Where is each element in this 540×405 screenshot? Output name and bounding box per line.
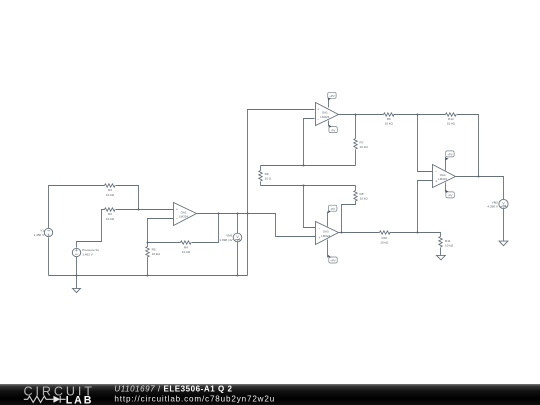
wire R5 top lead [147, 243, 149, 247]
junction R7 on OA1 output [355, 114, 357, 116]
svg-text:+: + [435, 180, 437, 184]
wire R10 right to R11 top [390, 233, 441, 237]
wire VM1 top [237, 214, 239, 234]
resistor R12 [446, 113, 457, 116]
junction R8 on OA3 output [341, 232, 343, 234]
svg-text:10 kΩ: 10 kΩ [447, 122, 456, 126]
svg-text:−: − [176, 217, 178, 221]
junction R5 rail [147, 275, 149, 277]
junction VM1 on OA2 output [237, 213, 239, 215]
svg-text:VM1: VM1 [226, 233, 233, 237]
wire OA1 output to R9 [339, 114, 384, 116]
svg-text:10 kΩ: 10 kΩ [360, 145, 369, 149]
wire R2 right lead to OA2 noninverting input [116, 209, 174, 211]
svg-text:OA1: OA1 [322, 111, 328, 115]
ground under R11 [437, 255, 446, 260]
wire OA3 inverting input from node B [304, 186, 316, 228]
wire V1 top to R3 left [49, 186, 105, 229]
wire R5 bottom lead [147, 257, 149, 276]
svg-text:10 kΩ: 10 kΩ [106, 193, 115, 197]
junction R3 R2 input node [138, 209, 140, 211]
junction node A [303, 165, 305, 167]
svg-text:R10: R10 [381, 236, 387, 240]
label R6 [265, 172, 272, 181]
svg-text:-PV: -PV [330, 207, 335, 211]
svg-text:1.450 V: 1.450 V [34, 233, 46, 237]
svg-text:R11: R11 [445, 239, 451, 243]
power flag -PV below OA1 [329, 121, 338, 133]
wire R12 right down to output [457, 115, 479, 177]
label R7 [360, 140, 369, 149]
wire V1 bottom to rail [48, 238, 50, 276]
svg-text:LM324: LM324 [179, 215, 188, 219]
wire VM2 bottom to ground [503, 209, 505, 241]
power flag -PV below OA4 [445, 183, 455, 198]
svg-text:OA3: OA3 [323, 230, 329, 234]
wire R7 bottom lead [355, 150, 357, 166]
resistor R6 [259, 171, 262, 182]
svg-text:+PV: +PV [329, 94, 334, 98]
junction R9 R12 node [417, 114, 419, 116]
power flag -PV above OA3 [328, 205, 337, 226]
voltage source V1 [34, 228, 53, 237]
op-amp OA4 [433, 165, 456, 188]
label R8 [360, 192, 369, 201]
resistor R9 [384, 113, 395, 116]
wire OA2 output to OA3 noninverting input [197, 214, 316, 237]
wire R6 top lead [260, 166, 262, 171]
svg-text:V1: V1 [40, 229, 44, 233]
svg-text:+: + [317, 108, 319, 112]
svg-text:R12: R12 [448, 117, 454, 121]
svg-text:LM324: LM324 [320, 115, 329, 119]
svg-text:LAB: LAB [66, 394, 93, 405]
wire R8 top lead [355, 186, 357, 191]
junction rail ground [76, 275, 78, 277]
voltmeter VM1 [219, 233, 241, 242]
svg-text:10 kΩ: 10 kΩ [106, 217, 115, 221]
label R12 [447, 117, 456, 126]
svg-text:−: − [435, 170, 437, 174]
svg-text:U1101697 / ELE3506-A1 Q 2: U1101697 / ELE3506-A1 Q 2 [114, 384, 232, 393]
svg-text:R6: R6 [265, 172, 269, 176]
svg-text:VM2: VM2 [492, 200, 499, 204]
svg-text:1.462 V: 1.462 V [82, 253, 94, 257]
svg-text:+: + [176, 207, 178, 211]
svg-text:R3: R3 [108, 188, 112, 192]
wire R3 right to node at R2 [116, 186, 139, 210]
svg-text:-PV: -PV [448, 194, 453, 198]
wire node B horizontal [261, 185, 356, 187]
wire OA4 noninverting input down to divider node [418, 181, 433, 233]
voltage source Pressure Sx [72, 248, 99, 257]
wire OA4 inverting input from R9 R12 node [418, 115, 433, 172]
junction R12 on OA4 output [478, 176, 480, 178]
svg-text:R5: R5 [152, 247, 156, 251]
svg-text:4.390 V: 4.390 V [487, 205, 499, 209]
wire OA4 output to VM2 [456, 177, 504, 200]
junction R4 R5 feedback node [147, 242, 149, 244]
wire Pressure source bottom [76, 257, 78, 276]
junction VM1 rail [237, 275, 239, 277]
power flag +PV below OA3 [328, 240, 338, 264]
svg-text:10 kΩ: 10 kΩ [182, 250, 191, 254]
wire long vertical to OA1 noninverting input [248, 110, 315, 276]
op-amp OA3 [316, 222, 339, 245]
wire R4 right lead up to output wire [192, 214, 219, 243]
voltmeter VM2 [487, 199, 508, 208]
svg-text:10 kΩ: 10 kΩ [445, 243, 454, 247]
svg-text:10 kΩ: 10 kΩ [152, 252, 161, 256]
label R10 [380, 236, 389, 245]
svg-text:R2: R2 [108, 212, 112, 216]
wire R7 top lead [355, 115, 357, 139]
junction node B [303, 185, 305, 187]
resistor R3 [105, 184, 116, 187]
resistor R11 [439, 237, 442, 248]
power flag +PV above OA1 [328, 92, 337, 107]
junction R4 on OA2 output [218, 213, 220, 215]
label R5 [152, 247, 161, 256]
svg-text:R7: R7 [360, 140, 364, 144]
svg-text:10 kΩ: 10 kΩ [385, 122, 394, 126]
wire ground stub [76, 276, 78, 289]
svg-text:10 kΩ: 10 kΩ [360, 197, 369, 201]
wire OA3 output to R10 [339, 232, 380, 234]
label R3 [106, 188, 115, 197]
wire R8 bottom lead to OA3 output [342, 201, 356, 233]
wire VM1 bottom [237, 242, 239, 276]
footer bar [0, 384, 540, 405]
label R2 [106, 212, 115, 221]
svg-text:LM324: LM324 [438, 177, 447, 181]
power flag +PV above OA4 [446, 151, 455, 171]
wire bottom rail [49, 275, 248, 277]
svg-text:LM324: LM324 [321, 234, 330, 238]
junction OA1 input wire on OA2 output [247, 213, 249, 215]
resistor R7 [354, 139, 357, 150]
svg-text:http://circuitlab.com/c78ub2yn: http://circuitlab.com/c78ub2yn72w2u [114, 394, 275, 403]
ground under pressure source [73, 288, 81, 292]
svg-text:10 kΩ: 10 kΩ [380, 241, 389, 245]
svg-text:1.398 mV: 1.398 mV [219, 238, 233, 242]
wire R4 left lead [148, 242, 181, 244]
svg-text:R8: R8 [360, 192, 364, 196]
junction OA4 input on divider [417, 232, 419, 234]
resistor R10 [380, 231, 391, 234]
label R9 [385, 117, 394, 126]
resistor R4 [181, 241, 192, 244]
op-amp OA2 [174, 203, 197, 226]
resistor R5 [146, 247, 149, 258]
wire OA2 inverting input to feedback node [148, 219, 174, 243]
svg-text:OA4: OA4 [440, 173, 446, 177]
label R11 [445, 239, 454, 248]
wire R2 left lead down to Pressure source top [77, 210, 105, 248]
svg-text:R9: R9 [387, 117, 391, 121]
ground under VM2 [499, 241, 508, 246]
svg-text:-PV: -PV [331, 128, 336, 132]
wire node A horizontal [261, 165, 356, 167]
label R4 [182, 245, 191, 254]
wire OA1 inverting input down to node A [304, 119, 315, 166]
svg-text:+: + [318, 236, 320, 240]
op-amp OA1 [316, 103, 339, 126]
resistor R8 [354, 191, 357, 202]
svg-text:R4: R4 [184, 245, 188, 249]
wire R9 right to R12 left [394, 114, 446, 116]
svg-text:10 Ω: 10 Ω [265, 177, 272, 181]
wire R11 bottom lead [440, 248, 442, 256]
svg-text:−: − [318, 227, 320, 231]
svg-text:−: − [317, 117, 319, 121]
CircuitLab logo resistor and diode [24, 396, 66, 403]
resistor R2 [105, 208, 116, 211]
svg-text:OA2: OA2 [181, 210, 187, 214]
svg-text:Pressure Sx: Pressure Sx [82, 248, 99, 252]
svg-text:+PV: +PV [330, 259, 335, 263]
wire R6 bottom lead [260, 182, 262, 186]
svg-text:+PV: +PV [447, 153, 452, 157]
